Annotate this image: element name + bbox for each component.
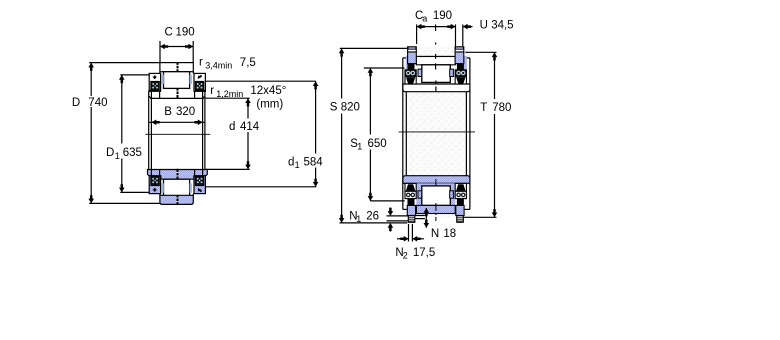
bottom center mark bbox=[435, 179, 437, 221]
dim d line bbox=[247, 98, 249, 118]
dim S ext top line bbox=[340, 47, 408, 49]
top center mark bbox=[435, 25, 437, 93]
bore side lines bbox=[148, 91, 150, 170]
svg-text:N: N bbox=[431, 228, 439, 240]
bottom section: inner ring band (blue) bbox=[148, 170, 208, 180]
bottom section: right cage hatch box bbox=[195, 176, 204, 186]
bottom section: right cage block bbox=[455, 191, 466, 198]
svg-text:1: 1 bbox=[295, 160, 300, 170]
bottom section: gap strips (blue) bbox=[416, 183, 455, 213]
svg-text:S: S bbox=[330, 102, 338, 114]
bottom section: right block dot glyph bbox=[198, 188, 202, 192]
unit silhouette left edge bbox=[402, 58, 404, 210]
housing/shaft hatch background bbox=[403, 47, 470, 218]
svg-text:D: D bbox=[106, 147, 114, 159]
bottom section: roller bbox=[164, 179, 190, 196]
top section: left flange block bbox=[149, 73, 160, 91]
dim N1 arrows bbox=[389, 208, 391, 210]
dim C ext lines bbox=[159, 41, 161, 63]
dim Ca line bbox=[417, 26, 456, 28]
dim C line bbox=[160, 46, 193, 48]
dim S ext bottom line bbox=[340, 222, 408, 224]
svg-text:34,5: 34,5 bbox=[491, 20, 513, 32]
svg-text:T: T bbox=[480, 102, 487, 114]
top section: left lower box with wedge bbox=[405, 76, 416, 84]
top section: roller bbox=[422, 65, 451, 83]
top section: left cage block bbox=[405, 70, 416, 77]
top section: rivet mark lower bbox=[177, 88, 179, 98]
dim S1 ext top line bbox=[364, 67, 405, 69]
dim T line bbox=[494, 52, 496, 99]
dim D line bbox=[90, 63, 92, 96]
dim N line bbox=[425, 208, 427, 228]
unit centerline bbox=[399, 131, 475, 133]
svg-text:U: U bbox=[480, 20, 488, 32]
svg-text:d: d bbox=[288, 156, 294, 168]
bottom section: left cage block bbox=[405, 191, 416, 198]
top section: left stud column (blue) bbox=[408, 52, 417, 64]
bottom section: outer ring band (blue) bbox=[160, 195, 193, 204]
top section: right stud nut (black) bbox=[457, 64, 464, 70]
dim S1 ext bottom line bbox=[370, 200, 404, 202]
dim D text bbox=[72, 97, 108, 109]
bottom section: cage strips bbox=[162, 183, 164, 193]
svg-text:18: 18 bbox=[443, 228, 456, 240]
svg-text:r: r bbox=[210, 85, 214, 97]
unit silhouette right edge bbox=[469, 58, 471, 210]
top section: neck lines bbox=[150, 91, 152, 98]
dim d1 ext bottom line bbox=[205, 186, 316, 188]
dim U text bbox=[480, 20, 514, 32]
dim D1 ext top line bbox=[120, 74, 149, 76]
dim C text bbox=[165, 26, 195, 38]
bottom section: center plate (blue) bbox=[416, 205, 455, 213]
svg-text:1: 1 bbox=[115, 151, 120, 161]
dim S1 text bbox=[350, 138, 386, 152]
svg-text:414: 414 bbox=[240, 121, 260, 133]
top section: roller bbox=[164, 72, 190, 89]
top section: right cage block bbox=[455, 70, 466, 77]
dim D1 line bbox=[121, 75, 123, 144]
top section: left cage hatch box bbox=[151, 81, 160, 91]
middle bore inner lines bbox=[405, 92, 407, 176]
svg-text:1: 1 bbox=[357, 141, 362, 151]
dim N2 text bbox=[395, 247, 435, 261]
svg-text:740: 740 bbox=[88, 97, 107, 109]
top section: left block arrow glyph bbox=[152, 75, 157, 79]
dim D ext bottom line bbox=[89, 202, 161, 204]
dim N2 arrows bbox=[397, 238, 409, 240]
dim N1 lines bbox=[387, 215, 408, 217]
dim d ext top line bbox=[206, 97, 250, 99]
bottom section: left flange block (blue) bbox=[149, 176, 160, 194]
top section: cage strips bbox=[418, 69, 422, 76]
top section: left stud nut (black) bbox=[408, 64, 415, 70]
dim T text bbox=[480, 102, 511, 114]
dim N1 text bbox=[349, 210, 379, 224]
bottom face lines bbox=[403, 208, 408, 210]
bottom section: right stud column (blue) bbox=[456, 205, 464, 215]
top section: cage strips bbox=[162, 75, 164, 85]
svg-text:190: 190 bbox=[176, 26, 195, 38]
bottom section: right stud nut (black) bbox=[457, 199, 464, 206]
dim D ext top line bbox=[89, 62, 160, 64]
top section: right block arrow glyph bbox=[198, 75, 202, 79]
dim S line bbox=[341, 48, 343, 98]
top section: band-to-block side lines bbox=[159, 72, 161, 74]
svg-text:780: 780 bbox=[492, 102, 511, 114]
top section: bore chamfers bbox=[149, 96, 151, 98]
dim D1 ext bottom line bbox=[120, 191, 150, 193]
top section: rivet mark upper bbox=[177, 63, 179, 72]
svg-text:190: 190 bbox=[433, 10, 452, 22]
bottom section: left stud thread bbox=[408, 216, 415, 223]
dim B line bbox=[149, 121, 205, 123]
dim N2 ext lines bbox=[408, 224, 410, 242]
top section: right cage hatch box bbox=[195, 81, 204, 91]
dim S text bbox=[330, 102, 360, 114]
RIGHT VIEW bbox=[330, 10, 514, 261]
bottom section: right flange block (blue) bbox=[194, 176, 205, 194]
bearing centerline bbox=[145, 133, 210, 135]
top section: outer ring band bbox=[160, 63, 193, 72]
top section: inner ring band bbox=[403, 84, 470, 92]
label r1,2min 12x45 (mm) bbox=[210, 85, 286, 111]
svg-text:C: C bbox=[165, 26, 173, 38]
dim d text bbox=[229, 121, 260, 133]
top section: left stud cap bbox=[408, 47, 417, 52]
svg-text:1,2min: 1,2min bbox=[216, 89, 243, 99]
svg-text:1: 1 bbox=[356, 214, 361, 224]
bottom section: left block dot glyph bbox=[152, 188, 157, 192]
svg-text:a: a bbox=[422, 13, 427, 23]
svg-text:584: 584 bbox=[304, 156, 324, 168]
svg-text:(mm): (mm) bbox=[256, 99, 283, 111]
dim U ext line bbox=[462, 24, 464, 46]
dim B text bbox=[164, 106, 195, 118]
svg-text:650: 650 bbox=[368, 138, 387, 150]
bottom section: inner ring band (blue) bbox=[403, 176, 470, 184]
dim Ca text bbox=[415, 10, 452, 24]
dim N text bbox=[431, 228, 456, 240]
bottom section: roller bbox=[422, 186, 451, 206]
svg-text:D: D bbox=[72, 97, 80, 109]
dim T ext top line bbox=[465, 51, 496, 53]
dim T ext bottom line bbox=[463, 216, 497, 218]
dim d1 line bbox=[315, 81, 317, 153]
svg-text:820: 820 bbox=[341, 102, 360, 114]
bottom section: left upper box with wedge bbox=[405, 183, 416, 191]
dim d1 text bbox=[288, 156, 323, 170]
svg-text:26: 26 bbox=[366, 210, 379, 222]
bottom section: rivet mark upper bbox=[177, 169, 179, 179]
bottom section: right stud thread bbox=[457, 216, 464, 223]
bottom section: left cage hatch box bbox=[151, 176, 160, 186]
dim d1 ext top line bbox=[206, 80, 316, 82]
LEFT VIEW bbox=[72, 26, 323, 204]
bottom section: cage strips bbox=[418, 191, 422, 198]
top section: bore top line bbox=[151, 97, 204, 99]
svg-text:r: r bbox=[199, 56, 203, 68]
top section: right lower box with wedge bbox=[455, 76, 466, 84]
top section: block outer steps bbox=[149, 89, 152, 91]
svg-text:635: 635 bbox=[123, 147, 142, 159]
top section: right flange block bbox=[194, 73, 205, 91]
dim D1 text bbox=[106, 147, 142, 161]
top section: center plate bbox=[416, 57, 455, 65]
svg-text:B: B bbox=[164, 106, 172, 118]
bottom section: right upper box with wedge bbox=[455, 183, 466, 191]
svg-text:d: d bbox=[229, 121, 235, 133]
svg-text:2: 2 bbox=[403, 250, 408, 260]
svg-text:3,4min: 3,4min bbox=[205, 60, 232, 70]
dim N ref lines bbox=[415, 215, 425, 217]
svg-text:17,5: 17,5 bbox=[413, 247, 435, 259]
svg-text:7,5: 7,5 bbox=[240, 57, 256, 69]
svg-text:12x45°: 12x45° bbox=[250, 85, 286, 97]
top section: right stud cap bbox=[455, 47, 464, 52]
top face lines bbox=[403, 57, 408, 59]
bottom section: rivet mark lower bbox=[177, 196, 179, 205]
top section: right stud column (blue) bbox=[455, 52, 464, 64]
dim Ca ext lines bbox=[416, 24, 418, 44]
dim U arrow bbox=[463, 26, 473, 28]
bottom section: left stud nut (black) bbox=[408, 199, 415, 206]
bottom section: left stud column (blue) bbox=[407, 205, 415, 215]
bottom section: band-to-block side lines bbox=[159, 194, 161, 196]
dim d ext bottom line bbox=[206, 168, 250, 170]
dim S1 line bbox=[369, 68, 371, 135]
svg-text:320: 320 bbox=[176, 106, 195, 118]
label r3,4min 7,5 bbox=[199, 56, 256, 70]
